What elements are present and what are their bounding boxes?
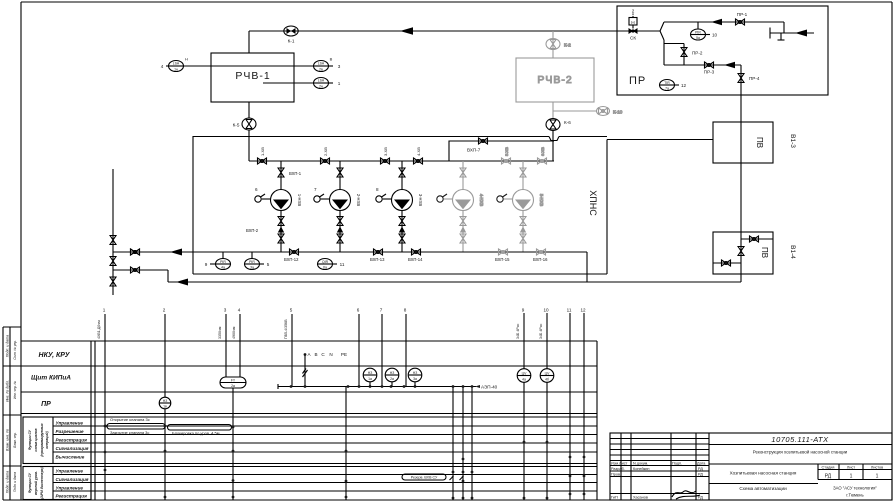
valve ПР-1 bbox=[736, 12, 748, 25]
title project name bbox=[709, 450, 892, 465]
signal line 6 bbox=[358, 314, 360, 387]
svg-text:7: 7 bbox=[314, 187, 317, 192]
svg-text:12: 12 bbox=[580, 308, 586, 313]
flow arrow upper branch bbox=[711, 19, 722, 25]
svg-text:3: 3 bbox=[224, 308, 227, 313]
svg-text:3-ХВ: 3-ХВ bbox=[383, 147, 388, 156]
svg-text:Закрытие клапана 3с: Закрытие клапана 3с bbox=[110, 430, 149, 435]
bus drop line b bbox=[452, 387, 454, 501]
svg-text:5-НХВ: 5-НХВ bbox=[539, 194, 544, 207]
svg-text:PIR: PIR bbox=[249, 260, 255, 264]
svg-text:1в: 1в bbox=[163, 405, 167, 409]
svg-text:QIR: QIR bbox=[322, 260, 329, 264]
title block bbox=[610, 433, 892, 500]
valve ПР-2 bbox=[681, 48, 703, 57]
svg-text:8: 8 bbox=[404, 308, 407, 313]
svg-text:г.Тюмень: г.Тюмень bbox=[846, 493, 864, 498]
svg-text:ВХП-2: ВХП-2 bbox=[246, 228, 259, 233]
well В1-4 bbox=[713, 232, 796, 274]
svg-text:ВХП-12: ВХП-12 bbox=[284, 257, 299, 262]
svg-text:Стадия: Стадия bbox=[822, 466, 835, 470]
signal line 12 bbox=[583, 313, 585, 500]
svg-text:ПР-4: ПР-4 bbox=[749, 76, 760, 81]
svg-text:1: 1 bbox=[338, 81, 341, 86]
svg-text:Регистрация: Регистрация bbox=[56, 438, 88, 443]
valve СК bbox=[629, 28, 638, 41]
svg-text:Хасанов: Хасанов bbox=[633, 496, 648, 500]
svg-text:6: 6 bbox=[357, 308, 360, 313]
svg-text:2-ХВ: 2-ХВ bbox=[323, 147, 328, 156]
tank РЧВ-1 bbox=[211, 53, 294, 102]
level instrument LSA-1н bbox=[161, 57, 263, 72]
svg-text:Разраб.: Разраб. bbox=[611, 467, 625, 471]
svg-text:PIR: PIR bbox=[220, 260, 226, 264]
svg-text:РД: РД bbox=[825, 474, 832, 480]
svg-text:Подп. и дата: Подп. и дата bbox=[13, 472, 17, 492]
converter FY-2а bbox=[220, 377, 246, 388]
signal line 1 bbox=[104, 314, 106, 500]
svg-text:ПР: ПР bbox=[629, 75, 646, 87]
svg-text:5-ХВ: 5-ХВ bbox=[504, 147, 509, 156]
svg-text:2а: 2а bbox=[231, 384, 235, 388]
signal line 5 bbox=[291, 314, 293, 387]
svg-text:N докум.: N докум. bbox=[633, 462, 648, 466]
table grid bbox=[21, 341, 597, 500]
svg-text:ЗАО "АСУ технология": ЗАО "АСУ технология" bbox=[833, 486, 877, 491]
valve ВХП-16 (grey) bbox=[533, 249, 548, 262]
pipe К-5 to header bbox=[248, 130, 250, 161]
svg-text:Подп. и дата: Подп. и дата bbox=[6, 471, 10, 494]
svg-text:НЗ: НЗ bbox=[163, 399, 168, 403]
bus junction nodes bbox=[290, 385, 474, 388]
instrument PIR-4а bbox=[205, 252, 231, 270]
svg-text:Функции СУ: Функции СУ bbox=[28, 429, 32, 450]
svg-text:4: 4 bbox=[161, 64, 164, 69]
svg-text:4-НХВ: 4-НХВ bbox=[479, 194, 484, 207]
signal line 9 lower bbox=[523, 382, 525, 500]
valve ВХП-14 bbox=[408, 249, 423, 262]
pipe discharge drop right bbox=[586, 252, 588, 282]
svg-text:11: 11 bbox=[340, 262, 345, 267]
svg-text:5: 5 bbox=[290, 308, 293, 313]
svg-text:1-ХВ: 1-ХВ bbox=[260, 147, 265, 156]
svg-text:4а: 4а bbox=[221, 266, 225, 270]
svg-text:ПВ: ПВ bbox=[755, 137, 764, 148]
svg-text:ПВ5-4/35КВ: ПВ5-4/35КВ bbox=[284, 319, 288, 339]
svg-text:К-10: К-10 bbox=[613, 110, 623, 115]
svg-text:Взам. чер.: Взам. чер. bbox=[13, 432, 17, 447]
svg-text:ТIR: ТIR bbox=[664, 81, 670, 85]
svg-text:Реконструкция хозпитьевой насо: Реконструкция хозпитьевой насосной станц… bbox=[753, 450, 848, 455]
flow arrow discharge bbox=[170, 249, 182, 256]
svg-text:Копейкин: Копейкин bbox=[633, 467, 650, 471]
pipe fork node bbox=[660, 22, 664, 40]
interlock pill 1 bbox=[104, 424, 166, 430]
svg-text:Разрешение: Разрешение bbox=[56, 429, 85, 434]
svg-text:Пров.: Пров. bbox=[611, 473, 621, 477]
relay НЗ-1в in ПР row bbox=[159, 397, 171, 409]
svg-text:12: 12 bbox=[681, 83, 687, 88]
starter ЦV-4а bbox=[517, 369, 531, 383]
pump branch 1-НХВ bbox=[255, 161, 302, 252]
node power feed bbox=[303, 353, 308, 386]
svg-text:2а: 2а bbox=[390, 377, 394, 381]
valve ПР-3 bbox=[704, 62, 715, 75]
svg-text:7а: 7а bbox=[665, 87, 669, 91]
svg-text:НЗ: НЗ bbox=[413, 371, 418, 375]
valve ВХП-13 bbox=[370, 249, 385, 262]
svg-text:Согл. № улр.: Согл. № улр. bbox=[13, 340, 17, 360]
signal line numbers bbox=[103, 308, 586, 313]
tank РЧВ-2 (reserve, grey) bbox=[516, 58, 594, 102]
valve К-10 (grey) bbox=[597, 107, 623, 116]
svg-text:2н: 2н bbox=[319, 85, 323, 89]
svg-text:операций): операций) bbox=[45, 430, 49, 448]
svg-text:ХПНС: ХПНС bbox=[588, 190, 598, 216]
pipe К-6 to header bbox=[552, 131, 554, 162]
bypass valve bottom bbox=[110, 277, 116, 286]
valve К-5 bbox=[233, 118, 256, 130]
svg-text:2: 2 bbox=[632, 9, 635, 14]
valves inside В1-4 bbox=[713, 232, 773, 274]
svg-text:Подп.: Подп. bbox=[672, 462, 682, 466]
svg-text:2: 2 bbox=[163, 308, 166, 313]
pipe ПР-4 down to В1-3 bbox=[740, 95, 742, 232]
discharge header pipe bbox=[113, 251, 587, 253]
svg-text:Вычисление: Вычисление bbox=[56, 455, 85, 460]
svg-text:5а: 5а bbox=[696, 36, 700, 40]
flow arrow lower branch bbox=[724, 62, 735, 68]
signal line 7 bbox=[381, 314, 383, 382]
valve К-1 bbox=[284, 26, 298, 44]
signal line 4 bbox=[239, 314, 241, 377]
svg-text:4б: 4б bbox=[545, 377, 549, 381]
svg-text:(АРМ диспетчера): (АРМ диспетчера) bbox=[40, 466, 44, 498]
svg-text:НКУ, КРУ: НКУ, КРУ bbox=[39, 352, 71, 359]
return pipe bottom bbox=[168, 281, 741, 283]
svg-text:6а: 6а bbox=[323, 266, 327, 270]
valve К-6 bbox=[546, 119, 571, 131]
svg-text:Взам. инв. №: Взам. инв. № bbox=[6, 429, 10, 451]
svg-text:РЧВ-2: РЧВ-2 bbox=[537, 74, 572, 86]
svg-text:ВХП-16: ВХП-16 bbox=[533, 257, 548, 262]
svg-text:Управление: Управление bbox=[56, 469, 84, 474]
svg-text:Лист: Лист bbox=[847, 466, 856, 470]
stage table bbox=[818, 464, 892, 480]
signal line 11 bbox=[569, 313, 571, 500]
bypass valve middle bbox=[110, 257, 116, 266]
suction header pipe bbox=[249, 160, 554, 162]
instrument TIR-12 bbox=[660, 80, 687, 91]
svg-text:1н: 1н bbox=[174, 68, 178, 72]
signal line 10 lower bbox=[546, 382, 548, 500]
svg-text:1: 1 bbox=[103, 308, 106, 313]
bypass branch pipe 2 bbox=[113, 267, 168, 282]
valve on discharge left bbox=[131, 249, 140, 255]
signal line 2 bbox=[164, 314, 166, 500]
svg-text:1: 1 bbox=[876, 474, 879, 480]
svg-text:4ХВ1.Д0чм: 4ХВ1.Д0чм bbox=[97, 320, 101, 339]
svg-text:6: 6 bbox=[255, 187, 258, 192]
pipe В1-4 to return line bbox=[740, 274, 742, 282]
svg-text:ВХП-15: ВХП-15 bbox=[495, 257, 510, 262]
svg-text:(программируемых: (программируемых bbox=[40, 423, 44, 456]
group 2 rotated label bbox=[28, 466, 44, 498]
svg-text:РД: РД bbox=[698, 496, 703, 500]
svg-text:N: N bbox=[329, 352, 332, 357]
svg-text:Блокировка по уров. 4,5м: Блокировка по уров. 4,5м bbox=[172, 431, 220, 436]
svg-text:Открытие клапана 3с: Открытие клапана 3с bbox=[110, 417, 150, 422]
svg-text:1а: 1а bbox=[368, 377, 372, 381]
svg-text:Изм.Лист: Изм.Лист bbox=[611, 462, 628, 466]
svg-text:8: 8 bbox=[376, 187, 379, 192]
power labels A B C N PE bbox=[307, 352, 347, 357]
svg-text:34Б 4Рхс: 34Б 4Рхс bbox=[539, 323, 543, 339]
svg-text:АЭП-40: АЭП-40 bbox=[481, 385, 498, 390]
svg-text:В1-3: В1-3 bbox=[789, 134, 796, 148]
svg-text:ВХП-14: ВХП-14 bbox=[408, 257, 423, 262]
svg-text:4: 4 bbox=[238, 308, 241, 313]
valve 1-ХВ bbox=[258, 147, 267, 164]
function row labels group 1 bbox=[56, 421, 89, 460]
svg-text:3-НХВ: 3-НХВ bbox=[418, 194, 423, 207]
svg-text:К-5: К-5 bbox=[233, 123, 240, 128]
svg-text:4900чм: 4900чм bbox=[232, 326, 236, 339]
svg-text:ВХП-7: ВХП-7 bbox=[467, 148, 481, 153]
title block signature texts bbox=[611, 462, 706, 500]
signal line 8 bbox=[405, 314, 407, 387]
svg-text:ПР-1: ПР-1 bbox=[737, 12, 748, 17]
valve 2-ХВ bbox=[321, 147, 330, 164]
valve 4-ХВ bbox=[414, 147, 423, 164]
starter НЗ-1а bbox=[363, 368, 377, 386]
flow arrow return bbox=[176, 279, 188, 286]
valve 3-ХВ bbox=[381, 147, 390, 164]
svg-text:ЦV: ЦV bbox=[522, 372, 528, 376]
main supply pipe (К-1 line) bbox=[249, 30, 629, 32]
title doc number bbox=[709, 435, 892, 445]
svg-text:К-2: К-2 bbox=[564, 43, 571, 48]
svg-text:схема циклов: схема циклов bbox=[34, 428, 38, 451]
bypass box ВХП-7 bbox=[449, 138, 554, 161]
instrument QIR-6а bbox=[318, 259, 345, 270]
svg-text:LSA: LSA bbox=[318, 79, 325, 83]
svg-text:LSA: LSA bbox=[318, 62, 325, 66]
svg-text:3350чм: 3350чм bbox=[218, 326, 222, 339]
group 1 rotated label bbox=[28, 423, 49, 456]
svg-text:СК: СК bbox=[630, 36, 636, 41]
svg-text:Н: Н bbox=[185, 57, 188, 62]
svg-text:10: 10 bbox=[543, 308, 549, 313]
instrument PIR-10 bbox=[691, 22, 718, 40]
svg-text:2-НХВ: 2-НХВ bbox=[356, 194, 361, 207]
signal line 3-4 merged lower bbox=[232, 388, 234, 500]
function row labels group 2 bbox=[56, 469, 89, 499]
title sheet name bbox=[709, 484, 818, 492]
svg-text:К-1: К-1 bbox=[288, 39, 295, 44]
bypass branch pipe 1 bbox=[113, 249, 140, 255]
svg-text:Сигнализация: Сигнализация bbox=[56, 446, 89, 451]
svg-text:ГиП: ГиП bbox=[611, 496, 618, 500]
signal line 10 bbox=[546, 313, 548, 369]
svg-text:LSA: LSA bbox=[173, 62, 180, 66]
svg-text:3: 3 bbox=[338, 64, 341, 69]
svg-text:34Б 4Рхс: 34Б 4Рхс bbox=[516, 323, 520, 339]
svg-text:В: В bbox=[330, 57, 333, 62]
svg-text:10: 10 bbox=[712, 33, 718, 38]
flow arrow inlet bbox=[795, 30, 807, 37]
svg-text:ПР-3: ПР-3 bbox=[704, 70, 715, 75]
svg-text:FY: FY bbox=[231, 379, 236, 383]
svg-text:ВХП-1: ВХП-1 bbox=[289, 171, 302, 176]
svg-text:ЦV: ЦV bbox=[545, 372, 551, 376]
valve К-2 (grey) bbox=[546, 39, 571, 50]
svg-text:Функции СУ: Функции СУ bbox=[28, 472, 32, 493]
city water inlet symbol bbox=[770, 22, 814, 40]
left frame strip bbox=[3, 327, 21, 500]
bypass column pipe bbox=[112, 169, 114, 295]
starter НЗ-2а bbox=[385, 368, 399, 386]
pipe upper branch to ПР-1 bbox=[664, 21, 784, 23]
title company bbox=[833, 486, 877, 498]
pipe ХПНС to В1-3 bbox=[607, 139, 713, 141]
bypass valve top bbox=[110, 236, 116, 245]
svg-text:7: 7 bbox=[380, 308, 383, 313]
pipe riser РЧВ-1 bottom bbox=[248, 102, 250, 118]
svg-text:РЕ: РЕ bbox=[341, 352, 347, 357]
svg-text:ПР: ПР bbox=[41, 401, 51, 408]
pipe lower branch to ПР-3 bbox=[664, 64, 741, 66]
valve ВХП-12 bbox=[284, 249, 299, 262]
pump branch 2-НХВ bbox=[314, 161, 361, 252]
bus drop line a bbox=[345, 387, 347, 501]
svg-text:PIR: PIR bbox=[695, 30, 701, 34]
enclosure ПР bbox=[617, 6, 828, 95]
cable labels bbox=[97, 319, 543, 339]
svg-text:11: 11 bbox=[567, 308, 572, 313]
svg-text:РД: РД bbox=[698, 467, 703, 471]
junction nodes in table bbox=[104, 425, 586, 500]
svg-text:9: 9 bbox=[522, 308, 525, 313]
svg-text:Управление: Управление bbox=[56, 421, 84, 426]
svg-text:10705.111-АТХ: 10705.111-АТХ bbox=[771, 435, 829, 444]
svg-text:РЧВ-1: РЧВ-1 bbox=[235, 70, 270, 82]
signal line 3 bbox=[225, 314, 227, 377]
svg-text:Сигнализация: Сигнализация bbox=[56, 477, 89, 482]
svg-text:НЗ: НЗ bbox=[390, 371, 395, 375]
interlock pill 2 bbox=[168, 425, 235, 431]
valve 5-ХВ (grey) bbox=[502, 147, 511, 164]
svg-text:6-ХВ: 6-ХВ bbox=[540, 147, 545, 156]
signal line 9 bbox=[523, 313, 525, 369]
enclosure ХПНС bbox=[193, 137, 607, 275]
svg-text:К-6: К-6 bbox=[564, 120, 571, 125]
svg-text:3а: 3а bbox=[413, 377, 417, 381]
svg-text:НЗ: НЗ bbox=[368, 371, 373, 375]
actuator box 2 over СК bbox=[629, 9, 637, 29]
svg-text:1-НХВ: 1-НХВ bbox=[297, 194, 302, 207]
svg-text:Подп. и дата: Подп. и дата bbox=[6, 335, 10, 358]
svg-text:1: 1 bbox=[850, 474, 853, 480]
svg-text:Управление: Управление bbox=[56, 486, 84, 491]
svg-text:4а: 4а bbox=[522, 377, 526, 381]
svg-text:ПР-2: ПР-2 bbox=[692, 51, 703, 56]
svg-text:Дата: Дата bbox=[697, 462, 706, 466]
pipe riser РЧВ-1 top bbox=[248, 31, 250, 53]
starter НЗ-3а bbox=[408, 368, 422, 386]
svg-text:В1-4: В1-4 bbox=[789, 245, 796, 259]
grey riser РЧВ-2 top bbox=[552, 31, 554, 58]
pump branch 3-НХВ bbox=[376, 161, 423, 252]
valve ВХП-15 (grey) bbox=[495, 249, 510, 262]
instrument PIR-3а bbox=[245, 252, 270, 270]
svg-text:Резерв. ВХВ СУ: Резерв. ВХВ СУ bbox=[411, 476, 438, 480]
level instrument LSA-2н bbox=[263, 78, 341, 89]
note Резерв п襲 bbox=[402, 474, 464, 480]
svg-text:Хозпитьевая насосная станция: Хозпитьевая насосная станция bbox=[730, 471, 797, 476]
svg-text:Листов: Листов bbox=[871, 466, 883, 470]
svg-text:верхний уров.: верхний уров. bbox=[34, 471, 38, 495]
svg-text:Схема автоматизации: Схема автоматизации bbox=[739, 486, 787, 491]
svg-text:4-ХВ: 4-ХВ bbox=[416, 147, 421, 156]
bus drop line c bbox=[462, 387, 464, 501]
svg-text:3а: 3а bbox=[250, 266, 254, 270]
well В1-3 bbox=[713, 122, 796, 163]
svg-text:ПВ: ПВ bbox=[760, 247, 769, 258]
valve ПР-4 bbox=[738, 65, 760, 95]
svg-text:5: 5 bbox=[267, 262, 270, 267]
level instrument LSA-2в bbox=[263, 57, 341, 72]
svg-text:Щит КИПиА: Щит КИПиА bbox=[31, 375, 71, 382]
svg-text:ВХП-13: ВХП-13 bbox=[370, 257, 385, 262]
power bus АЭП-40 bbox=[278, 384, 498, 390]
svg-text:2в: 2в bbox=[319, 68, 323, 72]
svg-text:9: 9 bbox=[205, 262, 208, 267]
pump branch 5-НХВ bbox=[497, 161, 544, 252]
svg-text:Инв. № дубл.: Инв. № дубл. bbox=[6, 380, 10, 402]
starter ЦV-4б bbox=[540, 369, 554, 383]
bus drop line d bbox=[471, 387, 473, 501]
svg-text:РД: РД bbox=[698, 473, 703, 477]
svg-text:Инв. чер. №: Инв. чер. № bbox=[13, 381, 17, 399]
pipe ПР-2 branch bbox=[664, 40, 684, 65]
flow arrow on main pipe bbox=[400, 27, 413, 35]
grey riser РЧВ-2 bottom bbox=[553, 102, 596, 119]
signal line 7 lower bbox=[381, 382, 383, 387]
pump branch 4-НХВ bbox=[437, 161, 484, 252]
valve 6-ХВ (grey) bbox=[538, 147, 547, 164]
svg-text:Регистрация: Регистрация bbox=[56, 494, 88, 499]
svg-text:В: В bbox=[314, 352, 317, 357]
